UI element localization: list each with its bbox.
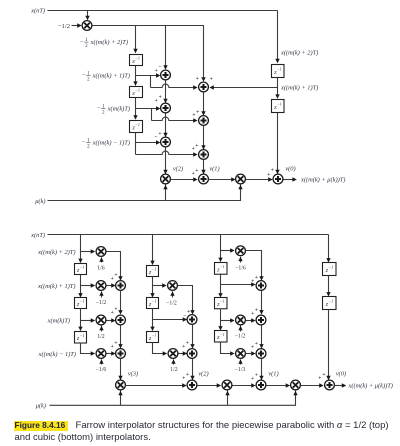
- svg-text:−: −: [82, 72, 86, 79]
- svg-text:x((m(k) + 1)T): x((m(k) + 1)T): [92, 72, 130, 79]
- svg-text:1/2: 1/2: [170, 367, 178, 373]
- label -1/2 x((m(k)+2)T): [80, 38, 128, 49]
- svg-text:v(0): v(0): [285, 166, 295, 173]
- wire rail2 from M0 to adder A3: [93, 26, 204, 81]
- wire coeff into N1: [172, 291, 174, 297]
- multiplier P4: [96, 349, 106, 359]
- svg-text:+: +: [155, 68, 158, 74]
- wire zO2 to zO3: [220, 309, 222, 330]
- svg-text:+: +: [318, 376, 321, 382]
- svg-text:+: +: [111, 310, 114, 316]
- adder T2: [256, 315, 266, 325]
- svg-text:x((m(k) + 2)T): x((m(k) + 2)T): [280, 49, 318, 56]
- svg-text:−1: −1: [328, 265, 333, 270]
- svg-text:+: +: [155, 98, 158, 104]
- svg-text:+: +: [111, 344, 114, 350]
- wire -1/2 into M0: [72, 25, 81, 27]
- adder A3: [199, 82, 209, 92]
- wire z2 to z3: [135, 98, 137, 119]
- svg-text:−1: −1: [220, 299, 225, 304]
- svg-text:−1: −1: [152, 333, 157, 338]
- delay zL1: [75, 264, 87, 275]
- svg-text:μ(k): μ(k): [36, 403, 46, 410]
- svg-text:−: −: [183, 313, 186, 319]
- multiplier P2: [96, 281, 106, 291]
- wire zU2 down to U: [328, 310, 330, 380]
- wire z3 output down: [135, 133, 137, 155]
- wire bottom rail x(nT): [48, 234, 329, 236]
- svg-text:1/6: 1/6: [97, 266, 105, 272]
- svg-text:2: 2: [102, 111, 105, 116]
- wire drop junction row2: [150, 76, 152, 88]
- adder S2: [187, 349, 197, 359]
- wire coeff into N2: [173, 359, 175, 364]
- wire coeff into P4: [101, 359, 103, 364]
- svg-text:+: +: [255, 341, 258, 347]
- wire R3 to final adder U: [301, 385, 323, 387]
- svg-text:+: +: [251, 311, 254, 317]
- multiplier O2: [236, 315, 246, 325]
- label -1/2 x(m(k)T): [97, 104, 130, 115]
- wire tap row4 into B3: [136, 142, 160, 144]
- wire zU1 to zU2: [328, 276, 330, 296]
- svg-text:−1: −1: [135, 56, 140, 61]
- svg-text:2: 2: [87, 78, 90, 83]
- wire coeff into P3: [101, 326, 103, 332]
- adder B3: [161, 137, 171, 147]
- wire zM1 to zM2: [152, 277, 154, 297]
- wire rail branch x=152 down: [152, 235, 154, 265]
- delay zO2: [215, 298, 228, 309]
- svg-text:−: −: [97, 105, 101, 112]
- wire tap to N1: [153, 285, 166, 287]
- svg-text:+: +: [322, 372, 325, 378]
- svg-text:v(2): v(2): [198, 370, 208, 377]
- delay zL2: [75, 298, 87, 309]
- wire branch down to multiplier M0: [87, 11, 89, 20]
- multiplier O1: [236, 246, 246, 256]
- wire S1 to S2: [192, 325, 194, 348]
- adder T4: [256, 380, 266, 390]
- wire R2 to adder T4: [233, 385, 255, 387]
- svg-text:+: +: [196, 109, 199, 115]
- wire zM2 to zM3: [152, 309, 154, 331]
- svg-text:+: +: [111, 276, 114, 282]
- wire tap2 to P2: [81, 285, 95, 287]
- wire tap row2 into B1: [136, 75, 160, 77]
- wire tap3 to P3: [81, 320, 95, 322]
- delay zO3: [215, 331, 228, 343]
- wire B1 to B2: [165, 81, 167, 103]
- svg-text:+: +: [271, 167, 274, 173]
- wire A5 to A7: [203, 160, 205, 174]
- svg-text:−1: −1: [277, 67, 282, 72]
- adder U: [325, 380, 335, 390]
- svg-text:x((m(k) + 2)T): x((m(k) + 2)T): [37, 249, 75, 256]
- wire branch into delay z1: [135, 26, 137, 53]
- adder A8: [273, 174, 283, 184]
- adder B1: [161, 70, 171, 80]
- adder T3: [256, 349, 266, 359]
- adder A7: [199, 174, 209, 184]
- wire rail branch x=220.5 down: [220, 235, 222, 262]
- svg-text:−1/3: −1/3: [235, 367, 246, 373]
- svg-text:−1/2: −1/2: [235, 334, 246, 340]
- svg-text:x(nT): x(nT): [30, 232, 45, 239]
- delay zM1: [147, 266, 159, 277]
- wire rail corner down right column: [328, 235, 330, 262]
- multiplier N2: [168, 349, 178, 359]
- delay zU2: [323, 297, 337, 310]
- svg-text:−1: −1: [80, 265, 85, 270]
- wire tap into A3 right side: [210, 87, 277, 89]
- svg-text:+: +: [192, 112, 195, 118]
- wire zL1 to zL2: [80, 275, 82, 297]
- wire A3 to A4: [203, 93, 205, 115]
- svg-text:+: +: [255, 275, 258, 281]
- adder S1: [187, 315, 197, 325]
- wire P2 to Q1: [107, 285, 115, 287]
- svg-text:+: +: [182, 344, 185, 350]
- wire A7 to multiplier M2: [209, 179, 235, 181]
- wire B2 to B3: [165, 114, 167, 137]
- adder T1: [256, 281, 266, 291]
- svg-text:x((m(k) + μ(k))T): x((m(k) + μ(k))T): [300, 176, 345, 183]
- svg-text:−1: −1: [152, 299, 157, 304]
- wire B3 to multiplier M1: [165, 148, 167, 174]
- wire N2 to S2: [179, 353, 187, 355]
- multiplier M2: [236, 174, 246, 184]
- svg-text:−: −: [158, 64, 161, 70]
- svg-text:+: +: [114, 341, 117, 347]
- wire tap3 to O2: [221, 320, 234, 322]
- wire tap1 to P1: [81, 251, 95, 253]
- wire coeff into P2: [101, 291, 103, 297]
- wire M1 to adder A7: [171, 179, 197, 181]
- svg-text:+: +: [255, 308, 258, 314]
- svg-text:−1: −1: [80, 299, 85, 304]
- svg-text:+: +: [182, 376, 185, 382]
- svg-text:v(2): v(2): [173, 166, 183, 173]
- delay zR2: [272, 100, 285, 113]
- multiplier R1: [116, 380, 126, 390]
- svg-text:v(0): v(0): [336, 370, 346, 377]
- svg-text:+: +: [251, 345, 254, 351]
- wire row2 to adder A3 with hop: [151, 84, 197, 87]
- svg-text:−1/2: −1/2: [58, 23, 70, 30]
- wire coeff into O2: [240, 326, 242, 332]
- svg-text:x((m(k) + 2)T): x((m(k) + 2)T): [90, 39, 128, 46]
- wire drop junction row3: [151, 109, 153, 121]
- svg-text:−: −: [82, 139, 86, 146]
- wire U output: [335, 385, 346, 387]
- wire mu branch to R1: [120, 391, 122, 406]
- wire right column down to zR1: [277, 11, 279, 63]
- wire A8 output: [284, 179, 296, 181]
- wire zL3 to P4: [81, 343, 95, 354]
- svg-text:−1/2: −1/2: [166, 300, 177, 306]
- delay z1: [130, 55, 143, 66]
- svg-text:−1/6: −1/6: [96, 367, 107, 373]
- svg-text:x(m(k)T): x(m(k)T): [47, 317, 70, 324]
- svg-text:v(3): v(3): [128, 370, 138, 377]
- wire O2 to T2: [246, 320, 255, 322]
- wire row4 to adder A5 with hop: [136, 151, 197, 154]
- wire zO1 to zO2: [220, 274, 222, 297]
- wire T4 to multiplier R3: [267, 385, 290, 387]
- wire coeff into O3: [240, 359, 242, 364]
- multiplier M0: [82, 21, 92, 31]
- adder B2: [161, 103, 171, 113]
- delay zO1: [215, 263, 228, 275]
- svg-text:+: +: [114, 273, 117, 279]
- adder A4: [199, 116, 209, 126]
- multiplier R2: [222, 380, 232, 390]
- svg-text:−1/6: −1/6: [235, 266, 246, 272]
- wire rail branch x=80 down: [80, 235, 82, 263]
- multiplier R3: [291, 380, 301, 390]
- wire Q1 to Q2: [120, 291, 122, 314]
- svg-text:x((m(k) + 1)T): x((m(k) + 1)T): [280, 84, 318, 91]
- delay zR1: [272, 65, 285, 78]
- wire mu rail bottom to R3: [50, 391, 296, 406]
- wire T2 to T3: [261, 326, 263, 348]
- wire mu rail to M2: [48, 185, 241, 201]
- svg-text:+: +: [186, 372, 189, 378]
- delay zM2: [147, 298, 159, 309]
- caption figure number highlight: [14, 421, 68, 432]
- svg-text:+: +: [255, 373, 258, 379]
- caption text: [15, 420, 400, 444]
- delay z3: [130, 121, 143, 133]
- svg-text:μ(k): μ(k): [35, 198, 45, 205]
- svg-text:+: +: [158, 131, 161, 137]
- svg-text:−: −: [154, 134, 157, 140]
- wire P4 to Q3: [107, 353, 115, 355]
- wire zL2 to zL3: [80, 309, 82, 331]
- label -1/2 x((m(k)+1)T): [82, 71, 130, 82]
- wire P3 to Q2: [107, 320, 115, 322]
- svg-text:+: +: [159, 95, 162, 101]
- svg-text:2: 2: [85, 44, 88, 49]
- wire top rail x(nT): [48, 10, 278, 12]
- wire tap2 to T1: [221, 284, 255, 286]
- svg-text:v(1): v(1): [268, 370, 278, 377]
- svg-text:+: +: [251, 376, 254, 382]
- svg-text:−1: −1: [152, 267, 157, 272]
- adder S3: [187, 380, 197, 390]
- svg-text:−1: −1: [328, 299, 333, 304]
- multiplier O3: [236, 349, 246, 359]
- wire mu branch to R2: [227, 391, 229, 406]
- wire Q2 to Q3: [120, 326, 122, 348]
- multiplier P3: [96, 315, 106, 325]
- svg-text:+: +: [210, 77, 213, 83]
- svg-text:+: +: [114, 307, 117, 313]
- svg-text:+: +: [196, 76, 199, 82]
- svg-text:−1: −1: [277, 102, 282, 107]
- svg-text:−1: −1: [135, 122, 140, 127]
- wire T1 to T2: [261, 291, 263, 314]
- svg-text:+: +: [195, 143, 198, 149]
- label -1/2 x((m(k)-1)T): [82, 138, 130, 149]
- wire branch into adder B1: [165, 26, 167, 69]
- wire zM3 to N2: [153, 343, 167, 354]
- svg-text:x((m(k) + μ(k))T): x((m(k) + μ(k))T): [348, 382, 393, 389]
- wire O3 to T3: [246, 353, 255, 355]
- wire tap to S1: [153, 319, 187, 321]
- svg-text:1/2: 1/2: [97, 334, 105, 340]
- wire A4 to A5: [203, 126, 205, 149]
- adder Q1: [116, 281, 126, 291]
- wire M2 to adder A8: [246, 179, 272, 181]
- svg-text:+: +: [186, 341, 189, 347]
- wire R1 to adder S3: [126, 385, 186, 387]
- wire N1 to adder S1: [178, 286, 193, 314]
- wire zR2 down to A8: [277, 113, 279, 174]
- wire row3 to adder A4 with hop: [152, 117, 197, 120]
- svg-text:2: 2: [87, 145, 90, 150]
- adder Q2: [116, 315, 126, 325]
- wire coeff into O1: [240, 257, 242, 263]
- delay zM3: [147, 332, 159, 343]
- svg-text:+: +: [187, 309, 190, 315]
- multiplier P1: [96, 247, 106, 257]
- wire S3 to multiplier R2: [198, 385, 221, 387]
- wire tap1 to O1: [221, 250, 234, 252]
- delay z2: [130, 87, 143, 98]
- wire tap row3 into B2: [136, 108, 160, 110]
- wire z1 to z2: [135, 66, 137, 86]
- svg-text:−1: −1: [80, 333, 85, 338]
- svg-text:x((m(k) + 1)T): x((m(k) + 1)T): [37, 283, 75, 290]
- svg-text:−1: −1: [220, 264, 225, 269]
- wire T3 to T4: [261, 359, 263, 380]
- wire zO3 to O3: [221, 343, 234, 354]
- wire S2 to S3: [192, 359, 194, 380]
- svg-text:+: +: [195, 168, 198, 174]
- svg-text:x(nT): x(nT): [30, 7, 45, 14]
- wire Q3 to multiplier R1: [120, 359, 122, 380]
- svg-text:−1/2: −1/2: [96, 300, 107, 306]
- delay zU1: [323, 263, 337, 276]
- wire P1 to Q1: [107, 252, 121, 280]
- multiplier M1: [161, 174, 171, 184]
- svg-text:−1: −1: [220, 332, 225, 337]
- adder Q3: [116, 349, 126, 359]
- svg-text:−: −: [80, 39, 84, 46]
- svg-text:x(m(k)T): x(m(k)T): [107, 105, 130, 112]
- wire mu branch to M1: [165, 185, 167, 201]
- svg-text:v(1): v(1): [209, 166, 219, 173]
- svg-text:+: +: [251, 279, 254, 285]
- wire zR1 to zR2: [277, 78, 279, 98]
- delay zL3: [75, 332, 87, 344]
- svg-text:−1: −1: [135, 88, 140, 93]
- wire coeff into P1: [101, 257, 103, 262]
- svg-text:x((m(k) − 1)T): x((m(k) − 1)T): [92, 139, 130, 146]
- multiplier N1: [168, 281, 178, 291]
- adder A5: [199, 150, 209, 160]
- wire O1 to adder T1: [246, 251, 262, 280]
- svg-text:x((m(k) − 1)T): x((m(k) − 1)T): [38, 351, 76, 358]
